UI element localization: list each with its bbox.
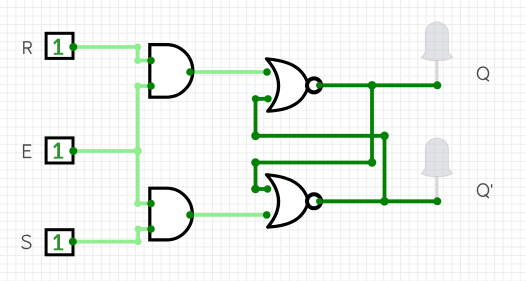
AND gate U2 body <box>150 188 193 240</box>
value 1 of input R <box>53 39 63 55</box>
wire R output to AND1 input A (carries 1, light green) <box>73 47 151 61</box>
label E <box>24 145 32 157</box>
corner node on R wire <box>134 57 141 64</box>
corner node E bus bottom <box>134 200 141 207</box>
pin U4 output <box>316 198 323 205</box>
pin U4 input A <box>264 185 272 193</box>
input R box <box>46 33 73 58</box>
wire net Q' : NOR2 output to LED D2 <box>318 199 437 203</box>
wire net Q' feedback horizontal <box>256 134 385 138</box>
corner node E bus top <box>134 83 141 90</box>
pin U1 output <box>186 68 194 76</box>
pin U3 input B <box>264 95 271 102</box>
corner node net Q at NOR2 input A elbow <box>251 185 260 194</box>
AND gate U1 body <box>150 45 193 98</box>
wire E bus vertical <box>136 86 140 204</box>
junction node E wire joins bus <box>134 147 142 155</box>
wire net Q feedback horizontal <box>256 161 373 165</box>
NOR gate U4 body <box>267 175 309 227</box>
pin U4 input B <box>263 211 271 219</box>
label Q <box>477 67 488 81</box>
corner node net Q' at NOR1 input B elbow <box>252 95 259 102</box>
pin U3 input A <box>263 68 271 76</box>
label Q' <box>477 184 491 198</box>
pin U3 output <box>316 82 323 89</box>
label S <box>22 235 31 248</box>
wire E bus stub to AND1 input B <box>138 84 151 88</box>
wire net Q feedback down to NOR2 input A <box>256 163 268 190</box>
wire net Q : NOR1 output to LED D1 <box>318 83 437 87</box>
node E output terminal <box>69 147 77 155</box>
NOR gate U3 body <box>267 59 309 111</box>
pin U1 input B <box>147 82 155 90</box>
corner node net Q' <box>380 132 389 141</box>
pin U1 input A <box>147 57 155 65</box>
corner node on R wire <box>134 44 141 51</box>
node R output terminal <box>69 43 77 51</box>
wire AND2 output to NOR2 input B (carries 1, light green) <box>190 213 267 217</box>
NOR gate U4 inversion bubble <box>307 194 321 208</box>
junction node net Q at LED branch <box>368 81 377 90</box>
input S box <box>46 230 73 255</box>
corner node on S wire <box>135 226 142 233</box>
corner node on S wire <box>135 238 142 245</box>
LED D1 (Q output lamp) <box>421 22 452 85</box>
label R <box>24 42 32 54</box>
node LED D2 input terminal <box>433 197 441 205</box>
pin U2 input B <box>147 225 155 233</box>
LED D2 (Q' output lamp) <box>421 138 452 201</box>
wire net Q feedback vertical drop <box>370 85 374 162</box>
wire net Q' feedback down to NOR1 input B <box>256 99 269 136</box>
wire S output to AND2 input B (carries 1, light green) <box>73 229 151 242</box>
value 1 of input E <box>53 143 63 159</box>
NOR gate U3 inversion bubble <box>307 78 321 92</box>
pin U2 output <box>186 211 194 219</box>
value 1 of input S <box>53 234 63 250</box>
wire E output to E bus <box>73 149 137 153</box>
wire E bus stub to AND2 input A <box>138 202 151 206</box>
node S output terminal <box>69 238 77 246</box>
corner node net Q <box>368 158 377 167</box>
wire AND1 output to NOR1 input A (carries 1, light green) <box>190 70 267 74</box>
input E box <box>46 138 73 163</box>
junction node net Q' at LED branch <box>380 197 389 206</box>
wire net Q' feedback vertical rise <box>383 136 387 202</box>
corner node net Q' <box>251 132 260 141</box>
node LED D1 input terminal <box>433 81 441 89</box>
pin U2 input A <box>147 200 155 208</box>
corner node net Q <box>251 158 260 167</box>
